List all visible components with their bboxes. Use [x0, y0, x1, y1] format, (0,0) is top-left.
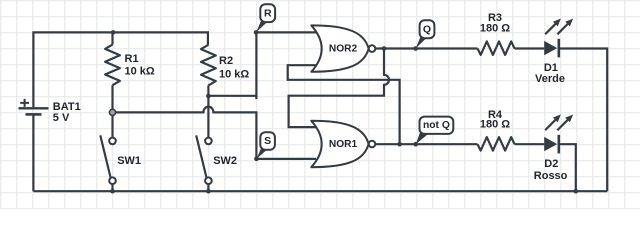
resistor R4 label	[488, 109, 503, 121]
switch SW2 label	[213, 155, 237, 167]
wire D1 to right rail down to ground	[559, 49, 607, 192]
wire S net: R1 node to S flag point to NOR1 input B (hop over R2 column)	[113, 107, 317, 159]
resistor R4	[478, 137, 515, 151]
junction SW2 ground	[206, 189, 211, 194]
LED D1 color label	[535, 73, 565, 85]
wire feedback NOR2 output to NOR1 input A (hop over y=79.8)	[289, 49, 389, 128]
junction NOR2 output feedback	[382, 46, 387, 51]
battery value 5 V	[53, 112, 70, 124]
wire feedback NOR1 output to NOR2 input B	[288, 65, 400, 144]
svg-text:5 V: 5 V	[53, 112, 70, 124]
svg-text:NOR2: NOR2	[329, 43, 358, 54]
wire notQ branch: NOR1 output to R4	[375, 143, 477, 145]
svg-text:Verde: Verde	[535, 73, 565, 85]
svg-text:10 kΩ: 10 kΩ	[219, 69, 249, 81]
LED D2	[544, 114, 573, 153]
resistor R3 value	[480, 23, 510, 35]
wire bottom ground rail	[33, 190, 607, 192]
switch SW1	[100, 135, 115, 184]
wire SW1 bottom stub	[111, 184, 113, 191]
flag R	[254, 4, 275, 34]
svg-text:R1: R1	[125, 53, 139, 65]
LED D1 label	[544, 62, 558, 74]
svg-text:D1: D1	[544, 62, 558, 74]
svg-text:R: R	[264, 8, 272, 20]
svg-text:Q: Q	[423, 24, 431, 36]
svg-text:SW1: SW1	[117, 155, 141, 167]
svg-text:BAT1: BAT1	[53, 101, 81, 113]
resistor R3	[478, 41, 515, 55]
flag not Q	[413, 117, 453, 147]
svg-text:NOR1: NOR1	[329, 139, 358, 150]
wire D2 down to ground rail	[559, 144, 576, 191]
LED D2 color label	[534, 170, 568, 182]
resistor R2	[201, 45, 216, 86]
battery BAT1 label	[53, 101, 81, 113]
resistor R1	[105, 45, 120, 86]
resistor R2 value	[219, 69, 249, 81]
wire battery negative to bottom rail	[32, 115, 34, 191]
LED D2 label	[544, 158, 558, 170]
switch SW2	[196, 135, 212, 184]
svg-text:180 Ω: 180 Ω	[480, 119, 510, 131]
junction R1 top rail	[111, 30, 116, 35]
svg-text:SW2: SW2	[213, 155, 237, 167]
wire R3 to D1	[515, 47, 545, 49]
wire R1 top lead	[111, 32, 113, 44]
switch SW1 label	[117, 155, 141, 167]
wire R2 bottom lead through junction to SW2	[207, 85, 209, 137]
resistor R1 label	[125, 53, 139, 65]
battery BAT1	[19, 99, 49, 115]
LED D1	[544, 19, 573, 58]
logic gate NOR1	[311, 121, 375, 167]
svg-text:Rosso: Rosso	[534, 170, 568, 182]
resistor R4 value	[480, 119, 510, 131]
wire R net: R2 node to R flag point to NOR2 input A	[208, 32, 316, 99]
flag Q	[413, 20, 434, 51]
svg-text:180 Ω: 180 Ω	[480, 23, 510, 35]
svg-text:not Q: not Q	[423, 120, 450, 131]
junction R2 bottom node	[206, 94, 211, 99]
junction NOR1 output feedback	[397, 142, 402, 147]
junction SW1 ground	[110, 189, 115, 194]
svg-text:10 kΩ: 10 kΩ	[125, 66, 155, 78]
wire R4 to D2	[515, 143, 545, 145]
flag S	[254, 132, 275, 161]
wire Q branch: NOR2 output to R3	[375, 47, 477, 49]
wire top rail from battery + to R1/R2 tops	[33, 32, 208, 107]
svg-text:R2: R2	[219, 55, 233, 67]
resistor R1 value	[125, 66, 155, 78]
wire SW2 bottom stub	[207, 184, 209, 191]
resistor R2 label	[219, 55, 233, 67]
logic gate NOR2	[311, 25, 375, 71]
svg-text:D2: D2	[544, 158, 558, 170]
wire R1 bottom lead to node and SW1	[111, 85, 113, 138]
node S-net gray junction at R1/SW1	[109, 109, 115, 115]
svg-text:S: S	[264, 135, 271, 147]
junction D2 ground	[574, 189, 579, 194]
resistor R3 label	[488, 12, 502, 24]
